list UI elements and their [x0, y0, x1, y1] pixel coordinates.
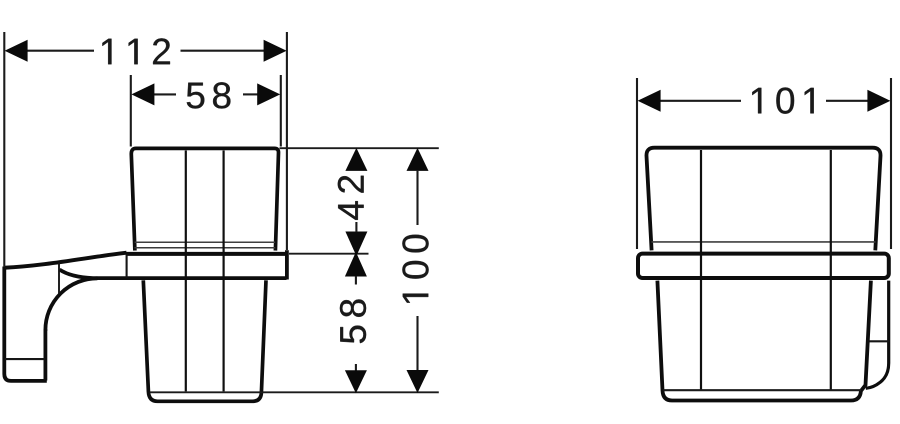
glass lower outline (side view)	[143, 280, 266, 401]
dimension 58 right arrowhead	[257, 83, 280, 105]
middle baseline at collar top (side view)	[289, 253, 369, 255]
dimension 42 stem	[355, 222, 357, 232]
wall plate left edge + bottom (side view)	[4, 267, 47, 381]
holder collar (front view)	[638, 254, 889, 278]
dimension 100 top arrowhead	[407, 148, 429, 171]
bottom baseline through glass inner bottom (side view)	[150, 391, 439, 393]
dimension 112 right extension line	[286, 32, 288, 250]
glass inner vertical line right (side view)	[223, 151, 225, 392]
dimension 58 left extension line	[130, 75, 132, 147]
collar/arm joint seam (side view)	[126, 254, 128, 278]
dimension 100 text (rotated)	[402, 235, 428, 303]
glass inner vertical line right (front view)	[830, 150, 832, 390]
dimension 112 line right segment	[181, 50, 267, 52]
glass inner vertical line left (side view)	[185, 151, 187, 392]
wall plate horizontal seam (side view)	[5, 358, 45, 360]
dimension 101 right extension line	[890, 78, 892, 249]
bracket hook inner arc (side view)	[45, 278, 97, 331]
dimension 112 text	[102, 38, 170, 64]
dimension 101 line right segment	[826, 100, 869, 102]
glass upper outline (side view)	[131, 148, 278, 250]
holder collar bottom edge + arm underside (side view)	[60, 270, 287, 279]
dimension 101 left arrowhead	[638, 90, 661, 112]
dimension 101 left extension line	[636, 78, 638, 249]
glass upper outline (front view)	[646, 148, 880, 251]
dimension 58 line left stem	[152, 93, 176, 95]
dimension 42 text (rotated)	[338, 176, 364, 220]
dimension 42 top arrowhead	[345, 148, 367, 171]
holder collar top edge (side view)	[126, 252, 287, 256]
holder hook outer contour (front view)	[866, 281, 889, 389]
glass inner vertical line left (front view)	[700, 150, 702, 390]
dimension 100 bottom stem	[416, 316, 418, 372]
glass rim faint line (front view)	[652, 241, 876, 243]
dimension 58v top stem	[355, 276, 357, 285]
wall plate lower right edge (side view)	[44, 329, 48, 381]
glass rim faint line 2 (side view)	[134, 247, 275, 249]
dimension 112 right arrowhead	[264, 40, 287, 62]
dimension 100 bottom arrowhead	[407, 370, 429, 393]
glass lower outline (front view)	[657, 281, 871, 401]
dimension 58 right extension line	[280, 75, 282, 147]
wall bracket top contour (side view)	[4, 253, 127, 268]
dimension 112 line left segment	[26, 50, 94, 52]
glass inner bottom line (front view)	[664, 389, 862, 391]
dimension 58v text (rotated)	[340, 299, 366, 343]
dimension 42 bottom arrowhead	[345, 232, 367, 257]
dimension 58v top arrowhead	[345, 252, 367, 277]
dimension 58v bottom stem	[355, 364, 357, 373]
dimension 100 top stem	[416, 170, 418, 225]
holder hook seam (front view)	[870, 340, 890, 342]
dimension 101 right arrowhead	[867, 90, 890, 112]
wall plate / arm seam vertical (side view)	[58, 263, 60, 294]
dimension 112 left extension line	[3, 32, 5, 267]
top baseline extending right of glass (side view)	[280, 147, 439, 149]
dimension 58 text	[187, 82, 231, 108]
dimension 112 left arrowhead	[5, 40, 28, 62]
dimension 58 line right stem	[243, 93, 258, 95]
dimension 101 text	[752, 88, 813, 114]
dimension 58v bottom arrowhead	[345, 370, 367, 393]
glass rim faint line 1 (side view)	[135, 241, 276, 243]
dimension 101 line left segment	[659, 100, 741, 102]
holder collar right edge (side view)	[285, 250, 289, 279]
dimension 58 left arrowhead	[131, 83, 154, 105]
